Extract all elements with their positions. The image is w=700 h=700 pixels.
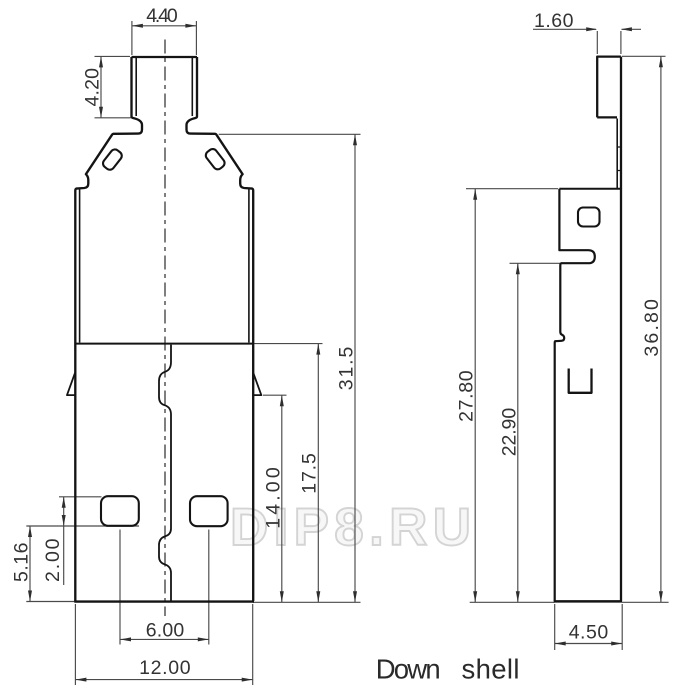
svg-text:Down: Down (376, 654, 442, 685)
svg-text:22.90: 22.90 (498, 407, 520, 456)
svg-text:2.00: 2.00 (42, 538, 64, 582)
svg-text:4.50: 4.50 (569, 621, 609, 643)
svg-text:31.5: 31.5 (335, 346, 357, 390)
svg-text:27.80: 27.80 (455, 370, 477, 422)
svg-text:4.40: 4.40 (146, 5, 178, 27)
svg-text:4.20: 4.20 (82, 68, 104, 107)
svg-text:12.00: 12.00 (139, 657, 191, 679)
svg-text:1.60: 1.60 (534, 10, 574, 32)
svg-text:36.80: 36.80 (641, 299, 663, 357)
svg-text:17.5: 17.5 (298, 453, 320, 494)
svg-text:shell: shell (462, 654, 521, 685)
svg-text:14.00: 14.00 (263, 467, 285, 529)
svg-text:5.16: 5.16 (11, 542, 33, 582)
svg-text:6.00: 6.00 (146, 619, 185, 641)
